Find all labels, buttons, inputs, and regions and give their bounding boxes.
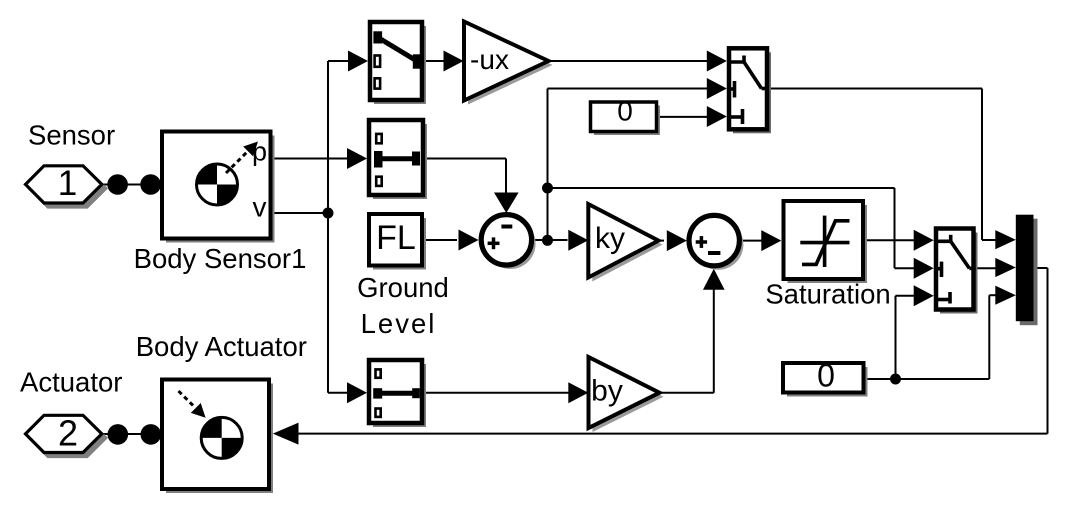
svg-text:Level: Level xyxy=(361,308,437,339)
svg-text:Actuator: Actuator xyxy=(20,367,122,398)
svg-text:1: 1 xyxy=(58,164,77,203)
svg-text:Body Sensor1: Body Sensor1 xyxy=(134,243,307,274)
svg-text:Sensor: Sensor xyxy=(28,119,115,150)
svg-text:2: 2 xyxy=(58,413,78,454)
svg-text:Ground: Ground xyxy=(357,272,449,303)
svg-text:ky: ky xyxy=(595,222,625,255)
svg-text:p: p xyxy=(252,137,267,167)
svg-text:0: 0 xyxy=(817,358,835,394)
svg-text:Saturation: Saturation xyxy=(765,279,890,310)
svg-text:Body Actuator: Body Actuator xyxy=(136,331,307,362)
svg-text:v: v xyxy=(253,192,267,223)
svg-text:-ux: -ux xyxy=(470,44,509,75)
svg-text:0: 0 xyxy=(617,96,633,127)
svg-text:FL: FL xyxy=(376,219,416,257)
svg-text:by: by xyxy=(591,375,623,408)
